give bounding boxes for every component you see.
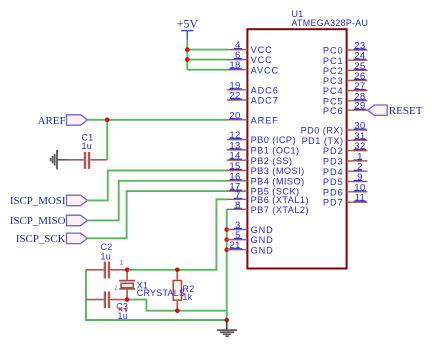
pin 6 VCC (left) <box>227 50 273 65</box>
wire GND rail from pin 8 down to bottom ground <box>226 209 228 320</box>
+5V supply symbol <box>177 19 199 41</box>
svg-text:PB4 (MISO): PB4 (MISO) <box>251 176 305 186</box>
svg-text:ISCP_SCK: ISCP_SCK <box>16 233 66 245</box>
pin 16 PB4 (MISO) (left) <box>227 171 305 186</box>
junction node A at R2 top <box>175 268 180 273</box>
wire AREF to pin 20 <box>88 119 228 121</box>
svg-text:ADC6: ADC6 <box>251 85 279 95</box>
svg-text:PD6: PD6 <box>323 187 344 197</box>
pin 18 AVCC (left) <box>227 60 279 75</box>
wire +5V to VCC pin 6 <box>187 59 227 61</box>
pin 2 PD4 (right) <box>323 162 367 177</box>
pin 28 PC5 (right) <box>323 91 367 106</box>
IC U1 ATMEGA328P-AU body <box>247 9 368 269</box>
pin 20 AREF (left) <box>227 110 279 125</box>
svg-text:1k: 1k <box>183 292 193 302</box>
svg-text:GND: GND <box>251 245 274 255</box>
flag ISCP_MISO <box>10 215 88 227</box>
junction AREF node <box>105 118 110 123</box>
svg-text:PB0 (ICP): PB0 (ICP) <box>251 135 296 145</box>
svg-text:11: 11 <box>355 193 366 204</box>
svg-text:PD0 (RX): PD0 (RX) <box>301 126 344 136</box>
pin 23 PC0 (right) <box>323 41 367 56</box>
svg-text:1: 1 <box>120 259 124 266</box>
pin 17 PB5 (SCK) (left) <box>227 182 300 197</box>
svg-text:PD1 (TX): PD1 (TX) <box>302 136 344 146</box>
pin 8 PB7 (XTAL2) (left) <box>227 200 309 215</box>
wire ISCP_SCK to PB5 pin 17 <box>88 191 228 238</box>
svg-text:1u: 1u <box>101 251 111 261</box>
pin 19 ADC6 (left) <box>227 80 279 95</box>
capacitor C2 <box>86 242 127 278</box>
svg-text:PB1 (OC1): PB1 (OC1) <box>251 146 300 156</box>
pin 30 PD0 (RX) (right) <box>301 121 368 136</box>
svg-text:+5V: +5V <box>177 19 199 31</box>
pin 24 PC1 (right) <box>323 51 367 66</box>
wire left ground rail for C2/C3 <box>86 270 227 320</box>
flag ISCP_MOSI <box>10 195 88 207</box>
junction R2 bottom <box>175 308 180 313</box>
R2 labels <box>183 284 195 302</box>
pin 12 PB0 (ICP) (left) <box>227 130 296 145</box>
svg-text:VCC: VCC <box>251 55 273 65</box>
svg-text:PC2: PC2 <box>323 66 344 76</box>
pin 10 PD6 (right) <box>323 182 367 197</box>
svg-text:GND: GND <box>251 235 274 245</box>
resistor R2 <box>173 270 181 311</box>
svg-text:PB7 (XTAL2): PB7 (XTAL2) <box>251 205 309 215</box>
pin 31 PD1 (TX) (right) <box>302 131 368 146</box>
junction node A at crystal/C2 <box>125 268 130 273</box>
svg-text:PD4: PD4 <box>323 167 344 177</box>
capacitor C1 <box>68 132 108 168</box>
crystal X1 <box>119 270 185 300</box>
svg-text:ADC7: ADC7 <box>251 96 279 106</box>
svg-text:GND: GND <box>251 225 274 235</box>
wire +5V to VCC pin 4 <box>187 49 227 51</box>
svg-text:PD3: PD3 <box>323 157 344 167</box>
svg-text:PC1: PC1 <box>323 56 344 66</box>
svg-text:PC4: PC4 <box>323 86 344 96</box>
pin 7 PB6 (XTAL1) (left) <box>227 190 309 205</box>
wire node A: pin 7 XTAL1 to crystal/C2/R2 <box>127 199 227 269</box>
svg-text:PC6: PC6 <box>323 106 344 116</box>
svg-text:PB3 (MOSI): PB3 (MOSI) <box>251 166 305 176</box>
pin 4 VCC (left) <box>227 40 273 55</box>
svg-text:AVCC: AVCC <box>251 65 279 75</box>
svg-text:8: 8 <box>235 200 241 211</box>
svg-text:AREF: AREF <box>38 115 66 127</box>
svg-text:ATMEGA328P-AU: ATMEGA328P-AU <box>292 18 369 28</box>
pin 22 ADC7 (left) <box>227 91 279 106</box>
flag RESET <box>368 105 423 117</box>
flag AREF <box>38 115 88 127</box>
svg-text:ISCP_MISO: ISCP_MISO <box>10 215 66 227</box>
svg-text:18: 18 <box>229 60 240 71</box>
svg-text:PD5: PD5 <box>323 177 344 187</box>
pin 21 GND (left) <box>227 240 274 255</box>
svg-text:22: 22 <box>229 91 240 102</box>
pin 15 PB3 (MOSI) (left) <box>227 161 305 176</box>
junction at bottom ground <box>224 318 229 323</box>
junction node B at crystal/C3 <box>125 297 130 302</box>
wire +5V rail vertical <box>186 40 188 69</box>
pin 27 PC4 (right) <box>323 81 367 96</box>
svg-text:PC3: PC3 <box>323 76 344 86</box>
svg-text:2: 2 <box>114 285 118 292</box>
svg-text:ISCP_MOSI: ISCP_MOSI <box>10 195 66 207</box>
junction +5V/VCC4 <box>185 47 190 52</box>
pin 32 PD2 (right) <box>323 141 367 156</box>
svg-text:PB6 (XTAL1): PB6 (XTAL1) <box>251 195 309 205</box>
svg-text:21: 21 <box>229 240 240 251</box>
svg-text:PD2: PD2 <box>323 146 344 156</box>
junction GND pin 3 <box>224 227 229 232</box>
svg-text:1u: 1u <box>118 311 128 321</box>
pin 14 PB2 (SS) (left) <box>227 151 293 166</box>
svg-text:AREF: AREF <box>251 115 279 125</box>
junction +5V/VCC6 <box>185 57 190 62</box>
ground at bottom <box>217 320 237 336</box>
wire AREF node down to C1 <box>106 120 108 160</box>
wire ISCP_MOSI to PB3 pin 15 <box>88 171 228 201</box>
flag ISCP_SCK <box>16 233 88 245</box>
pin 9 PD5 (right) <box>323 172 367 187</box>
svg-text:CRYSTALS: CRYSTALS <box>137 288 185 298</box>
ground at C1 <box>51 150 68 170</box>
svg-text:RESET: RESET <box>389 105 423 117</box>
pin 11 PD7 (right) <box>323 193 367 208</box>
junction GND pin 21 <box>224 247 229 252</box>
pin 13 PB1 (OC1) (left) <box>227 140 300 155</box>
svg-text:20: 20 <box>229 110 240 121</box>
pin 29 PC6 (right) <box>323 101 367 116</box>
wire node B: crystal/C3 to R2 bottom to GND rail <box>127 300 227 311</box>
wire ISCP_MISO to PB4 pin 16 <box>88 181 228 221</box>
pin mark red ticks near C3 label <box>119 307 122 311</box>
pin 25 PC2 (right) <box>323 61 367 76</box>
pin 1 PD3 (right) <box>323 151 367 166</box>
svg-text:VCC: VCC <box>251 45 273 55</box>
svg-text:1u: 1u <box>82 141 92 151</box>
svg-text:PB2 (SS): PB2 (SS) <box>251 156 293 166</box>
svg-text:PC0: PC0 <box>323 46 344 56</box>
junction GND pin 5 <box>224 237 229 242</box>
svg-text:29: 29 <box>354 101 365 112</box>
pin 3 GND (left) <box>227 220 274 235</box>
pin 26 PC3 (right) <box>323 71 367 86</box>
pin 5 GND (left) <box>227 230 274 245</box>
capacitor C3 <box>86 291 128 320</box>
svg-text:PD7: PD7 <box>323 198 344 208</box>
wire +5V to AVCC pin 18 <box>187 69 227 71</box>
